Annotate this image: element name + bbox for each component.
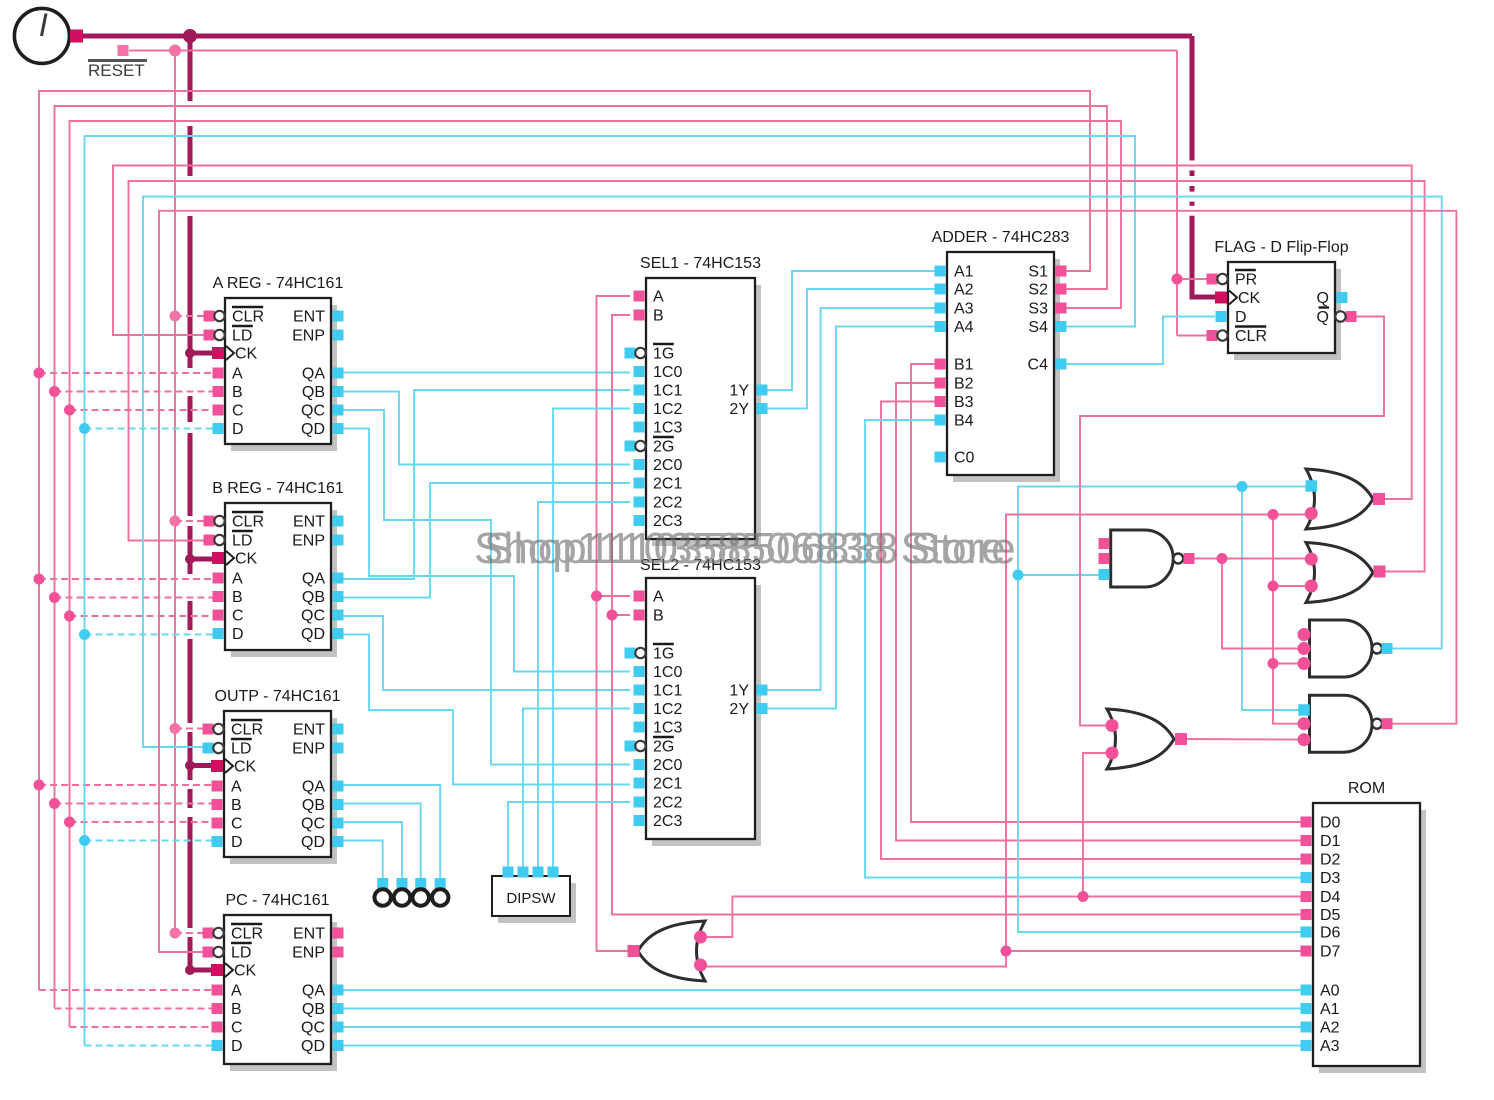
svg-text:LD: LD xyxy=(231,945,251,962)
wire OUTP QD to LED1 xyxy=(338,841,383,885)
svg-text:1C1: 1C1 xyxy=(653,383,682,400)
svg-text:Shop1110358506838 Store: Shop1110358506838 Store xyxy=(484,524,1016,573)
pin OR U9 inputs/output xyxy=(1106,719,1119,732)
svg-text:A3: A3 xyxy=(954,301,974,318)
wire DIPSW pin2 to SEL2 1C2 xyxy=(523,709,630,872)
svg-text:D7: D7 xyxy=(1320,944,1341,961)
svg-text:B: B xyxy=(231,797,242,814)
wire net LD-A: OR gate U5 output around right+top to A REG LD xyxy=(113,166,1412,500)
svg-text:1C0: 1C0 xyxy=(653,664,682,681)
svg-text:CLR: CLR xyxy=(232,309,264,326)
wire net SEL-A: OR gate U10 output up to SEL1 A / SEL2 A xyxy=(597,296,634,951)
gate OR U9 (flag/jump) xyxy=(1107,709,1174,769)
pin NAND U8 inputs/output xyxy=(1298,704,1310,716)
svg-text:QC: QC xyxy=(301,1020,325,1037)
wire net S4 (cyan): ADDER S4 to register D inputs xyxy=(85,136,1136,1046)
junction D7 taps xyxy=(1001,946,1012,957)
svg-text:D5: D5 xyxy=(1320,907,1341,924)
wire RESET stub A REG CLR xyxy=(175,315,209,317)
svg-text:1G: 1G xyxy=(653,346,674,363)
switch DIPSW SW1 xyxy=(492,867,576,924)
wire net LD-B: OR gate U6 output to B REG LD xyxy=(129,181,1425,572)
wire SEL1 1Y to ADDER A1 xyxy=(762,271,940,390)
wire RESET stub B REG CLR xyxy=(175,520,209,522)
svg-text:1C2: 1C2 xyxy=(653,401,682,418)
svg-text:B4: B4 xyxy=(954,413,974,430)
svg-text:ENP: ENP xyxy=(292,741,325,758)
svg-text:B3: B3 xyxy=(954,394,974,411)
gate NAND U3 body xyxy=(1111,530,1174,587)
svg-text:A4: A4 xyxy=(954,319,974,336)
flip-flop FLAG U18 (D Flip-Flop) xyxy=(1207,239,1357,360)
svg-text:ENT: ENT xyxy=(293,309,325,326)
svg-text:D1: D1 xyxy=(1320,833,1341,850)
svg-text:2C3: 2C3 xyxy=(653,813,682,830)
svg-text:LD: LD xyxy=(231,741,251,758)
junction D5 tap SEL2 B xyxy=(607,610,618,621)
wire PC QC to ROM A2 xyxy=(338,1026,1306,1028)
svg-text:B1: B1 xyxy=(954,357,974,374)
svg-text:QB: QB xyxy=(302,1001,325,1018)
wire NAND U3 output to OR U6 in1 and NAND U7 in2 xyxy=(1189,558,1306,560)
svg-text:D: D xyxy=(1235,309,1247,326)
svg-text:A1: A1 xyxy=(1320,1001,1340,1018)
junction SEL-A tap SEL2 A xyxy=(591,591,602,602)
svg-text:D4: D4 xyxy=(1320,889,1341,906)
svg-text:CLR: CLR xyxy=(232,514,264,531)
node RESET label and pin xyxy=(88,45,147,80)
wire net D6 (cyan): ROM D6 to NAND U3 in3, OR U5 in1, NAND U8 in1 xyxy=(1018,487,1306,933)
adder U17 (74HC283) xyxy=(932,229,1070,482)
wire SEL1 2Y to ADDER A2 xyxy=(762,289,940,409)
svg-text:D2: D2 xyxy=(1320,852,1341,869)
gate NAND U8 (LD-PC decoder) xyxy=(1310,695,1373,752)
svg-text:C: C xyxy=(232,403,244,420)
svg-text:A2: A2 xyxy=(1320,1020,1340,1037)
svg-text:ENP: ENP xyxy=(292,533,325,550)
svg-text:1C1: 1C1 xyxy=(653,683,682,700)
wire OUTP QA to LED4 xyxy=(338,785,440,884)
svg-text:1C0: 1C0 xyxy=(653,364,682,381)
svg-text:B: B xyxy=(653,308,664,325)
wire clock rail drop to FLAG CK (dashed at crossings) xyxy=(1190,36,1195,161)
junction D4 tap xyxy=(1078,891,1089,902)
junction S1 taps xyxy=(34,368,45,379)
junction clock rail / CK bus xyxy=(183,29,197,43)
svg-text:B REG - 74HC161: B REG - 74HC161 xyxy=(212,480,344,497)
svg-text:FLAG - D Flip-Flop: FLAG - D Flip-Flop xyxy=(1214,239,1348,256)
svg-text:A: A xyxy=(232,366,243,383)
svg-text:2C2: 2C2 xyxy=(653,795,682,812)
svg-text:CLR: CLR xyxy=(231,722,263,739)
junction NAND U3 output tap xyxy=(1217,553,1228,564)
svg-text:D3: D3 xyxy=(1320,870,1341,887)
wire RESET drop to FLAG PR / CLR xyxy=(1176,51,1178,336)
svg-text:A0: A0 xyxy=(1320,983,1340,1000)
svg-text:S4: S4 xyxy=(1028,319,1048,336)
wire net S3: ADDER S3 to register C inputs xyxy=(70,121,1122,1027)
svg-text:ENT: ENT xyxy=(293,926,325,943)
node RESET net: switch to register CLR pins and FLAG PR/CLR xyxy=(129,50,1177,52)
svg-text:C: C xyxy=(231,816,243,833)
svg-text:D0: D0 xyxy=(1320,815,1341,832)
svg-text:1C2: 1C2 xyxy=(653,701,682,718)
svg-text:2C1: 2C1 xyxy=(653,776,682,793)
svg-text:A: A xyxy=(653,289,664,306)
LED indicators LED1-LED4 xyxy=(375,878,449,906)
svg-text:S2: S2 xyxy=(1028,282,1048,299)
wire CK stub PC xyxy=(190,968,212,973)
wire B REG QD to SEL2 2C1 xyxy=(338,635,630,785)
wire B REG QB to SEL1 2C1 xyxy=(338,483,630,598)
svg-text:CK: CK xyxy=(235,551,258,568)
svg-text:C4: C4 xyxy=(1028,357,1049,374)
svg-text:D: D xyxy=(231,1038,243,1055)
wire CK stub B REG xyxy=(190,557,213,562)
svg-text:B: B xyxy=(232,384,243,401)
wire PC QA to ROM A0 xyxy=(338,989,1306,991)
junction S3 taps xyxy=(64,405,75,416)
svg-text:B2: B2 xyxy=(954,376,974,393)
svg-text:SEL1 - 74HC153: SEL1 - 74HC153 xyxy=(640,255,761,272)
svg-text:CK: CK xyxy=(1238,290,1261,307)
gate OR U6 (LD-B decoder) xyxy=(1306,543,1373,603)
pin NAND U3 inputs and output xyxy=(1099,538,1110,549)
svg-text:2Y: 2Y xyxy=(729,401,749,418)
svg-text:QC: QC xyxy=(301,403,325,420)
svg-text:QC: QC xyxy=(301,608,325,625)
svg-text:1C3: 1C3 xyxy=(653,420,682,437)
wire net S1: ADDER S1 around top-left to register A inputs xyxy=(39,91,1090,990)
svg-text:2C0: 2C0 xyxy=(653,757,682,774)
svg-text:QD: QD xyxy=(301,1038,325,1055)
svg-text:ROM: ROM xyxy=(1348,780,1385,797)
svg-text:QA: QA xyxy=(302,571,325,588)
wire A REG QD to SEL2 1C0 xyxy=(338,429,630,672)
wire ADDER C4 to FLAG D (cyan) xyxy=(1061,317,1215,365)
pin OR U6 inputs/output xyxy=(1305,553,1318,566)
svg-text:LD: LD xyxy=(232,328,252,345)
pin clock output xyxy=(70,30,83,43)
watermark store text (decorative, two offset copies) xyxy=(474,524,1016,573)
gate NAND U7 (LD-OUT decoder) xyxy=(1310,620,1373,677)
svg-text:2C1: 2C1 xyxy=(653,476,682,493)
svg-text:ENP: ENP xyxy=(292,945,325,962)
register PC U14 (74HC161) xyxy=(203,892,344,1071)
wire PC QD to ROM A3 xyxy=(338,1045,1306,1047)
multiplexer SEL2 U16 (74HC153) xyxy=(625,557,768,846)
svg-text:CK: CK xyxy=(234,963,257,980)
wire PC QB to ROM A1 xyxy=(338,1008,1306,1010)
svg-text:QD: QD xyxy=(301,834,325,851)
svg-text:C: C xyxy=(231,1020,243,1037)
svg-text:D: D xyxy=(232,626,244,643)
svg-text:RESET: RESET xyxy=(88,61,145,80)
svg-text:1G: 1G xyxy=(653,646,674,663)
svg-text:S3: S3 xyxy=(1028,301,1048,318)
gate OR U10 (select-A, mirrored) xyxy=(638,921,705,981)
svg-text:1C3: 1C3 xyxy=(653,720,682,737)
svg-text:QA: QA xyxy=(302,983,325,1000)
wire OUTP QC to LED2 xyxy=(338,822,402,884)
svg-text:S1: S1 xyxy=(1028,264,1048,281)
svg-text:DIPSW: DIPSW xyxy=(506,890,556,907)
pin NAND U7 inputs/output xyxy=(1298,628,1311,641)
wire B REG QA to SEL1 1C1 xyxy=(338,390,630,579)
svg-text:ADDER - 74HC283: ADDER - 74HC283 xyxy=(932,229,1070,246)
svg-text:A: A xyxy=(231,983,242,1000)
svg-text:LD: LD xyxy=(232,533,252,550)
svg-text:A1: A1 xyxy=(954,264,974,281)
wire DIPSW pin1 to SEL2 2C2 xyxy=(508,802,630,871)
svg-text:A2: A2 xyxy=(954,282,974,299)
wire A REG QC to SEL2 2C0 xyxy=(338,410,630,765)
junction S2 taps xyxy=(49,386,60,397)
svg-text:B: B xyxy=(231,1001,242,1018)
svg-text:C0: C0 xyxy=(954,450,975,467)
svg-text:2G: 2G xyxy=(653,739,674,756)
wire clock vertical bus x190 to register CK pins (long dashes) xyxy=(188,36,193,101)
wire ROM D3 (cyan) to ADDER B4 xyxy=(865,420,1306,878)
svg-text:CLR: CLR xyxy=(231,926,263,943)
junction D6 taps xyxy=(1013,570,1024,581)
svg-text:A REG - 74HC161: A REG - 74HC161 xyxy=(213,275,344,292)
wire RESET stub PC CLR xyxy=(175,932,208,934)
pin OR U5 inputs/output xyxy=(1306,480,1318,492)
wire net S2: ADDER S2 to register B inputs xyxy=(55,106,1108,1009)
svg-text:QD: QD xyxy=(301,626,325,643)
svg-text:B: B xyxy=(653,608,664,625)
wire OR U9 output to NAND U8 in3 xyxy=(1181,738,1299,741)
wire ROM D2 to ADDER B3 xyxy=(881,402,1306,860)
svg-text:QB: QB xyxy=(302,384,325,401)
svg-text:A3: A3 xyxy=(1320,1038,1340,1055)
svg-text:1Y: 1Y xyxy=(729,383,749,400)
svg-text:QC: QC xyxy=(301,816,325,833)
svg-text:QA: QA xyxy=(302,366,325,383)
svg-text:2C0: 2C0 xyxy=(653,457,682,474)
svg-text:2C2: 2C2 xyxy=(653,495,682,512)
wire clock output (thick dark crimson) top rail xyxy=(80,34,1192,39)
svg-text:ENP: ENP xyxy=(292,328,325,345)
svg-text:A: A xyxy=(232,571,243,588)
junction S4 taps xyxy=(79,423,90,434)
svg-text:C: C xyxy=(232,608,244,625)
multiplexer SEL1 U15 (74HC153) xyxy=(625,255,768,546)
svg-text:ENT: ENT xyxy=(293,722,325,739)
svg-text:2G: 2G xyxy=(653,439,674,456)
svg-text:Q: Q xyxy=(1317,309,1329,326)
wire ROM D0 to ADDER B1 xyxy=(911,364,1306,822)
clock source CLK xyxy=(14,8,69,63)
svg-text:QD: QD xyxy=(301,421,325,438)
wire net D7: ROM D7 to gates U5,U6,U7,U8 and OR U10 in2 xyxy=(1006,515,1306,952)
svg-text:PC - 74HC161: PC - 74HC161 xyxy=(225,892,329,909)
register OUTP U13 (74HC161) xyxy=(203,688,344,864)
wire CK stub OUTP xyxy=(190,763,212,768)
svg-text:A: A xyxy=(231,779,242,796)
svg-text:QA: QA xyxy=(302,779,325,796)
svg-text:A: A xyxy=(653,589,664,606)
wire DIPSW pin3 to SEL1 2C2 xyxy=(538,502,630,871)
svg-text:D: D xyxy=(231,834,243,851)
register B REG U12 (74HC161) xyxy=(204,480,344,657)
wire net LD-OUT (cyan): NAND gate U7 output to OUTP LD xyxy=(143,197,1442,747)
svg-text:ENT: ENT xyxy=(293,514,325,531)
wire SEL2 2Y to ADDER A4 xyxy=(762,327,940,709)
wire net LD-PC: NAND gate U8 output to PC LD xyxy=(159,211,1456,952)
junction RESET xyxy=(169,45,181,57)
svg-text:PR: PR xyxy=(1235,272,1257,289)
svg-text:B: B xyxy=(232,589,243,606)
wire SEL2 1Y to ADDER A3 xyxy=(762,308,940,690)
wire CK stub A REG xyxy=(190,351,213,356)
gate OR U5 (LD-A decoder) xyxy=(1306,469,1373,529)
wire OUTP QB to LED3 xyxy=(338,804,421,885)
svg-text:CK: CK xyxy=(235,346,258,363)
wire DIPSW pin4 to SEL1 1C2 xyxy=(553,409,630,872)
svg-text:D6: D6 xyxy=(1320,925,1341,942)
memory ROM U19 xyxy=(1301,780,1427,1073)
svg-text:1Y: 1Y xyxy=(729,683,749,700)
svg-text:2Y: 2Y xyxy=(729,701,749,718)
svg-text:CLR: CLR xyxy=(1235,328,1267,345)
wire net D5: ROM D5 to SEL1 B / SEL2 B select lines xyxy=(612,315,1306,915)
svg-text:QB: QB xyxy=(302,589,325,606)
register A REG U11 (74HC161) xyxy=(204,275,344,451)
svg-text:D: D xyxy=(232,421,244,438)
pin OR U10 inputs/output xyxy=(694,931,707,944)
wire B REG QC to SEL2 1C1 xyxy=(338,616,630,690)
svg-text:OUTP - 74HC161: OUTP - 74HC161 xyxy=(215,688,341,705)
svg-text:QB: QB xyxy=(302,797,325,814)
wire ROM D1 to ADDER B2 xyxy=(896,383,1306,841)
svg-text:Q: Q xyxy=(1317,290,1329,307)
wire A REG QB to SEL1 2C0 xyxy=(338,392,630,465)
wire FLAG Qbar feedback to OR gate U9 in1 xyxy=(1080,317,1384,726)
wire net D4: ROM D4 to OR gate U10 in1 and OR gate U9 in2 xyxy=(705,897,1306,938)
wire RESET stub OUTP CLR xyxy=(175,728,208,730)
svg-text:CK: CK xyxy=(234,759,257,776)
wire A REG QA to SEL1 1C0 xyxy=(338,372,630,374)
